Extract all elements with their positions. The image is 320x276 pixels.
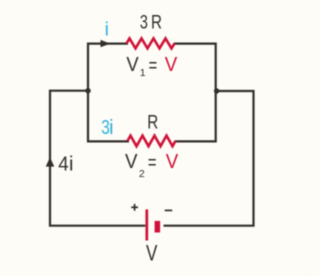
svg-text:R: R [147,111,158,133]
svg-text:V: V [166,151,179,173]
svg-text:i: i [69,154,73,176]
svg-text:V: V [165,54,178,76]
svg-text:i: i [105,19,109,41]
svg-text:R: R [151,12,162,34]
svg-text:V: V [125,151,138,173]
svg-text:=: = [148,152,157,174]
svg-text:1: 1 [140,67,146,79]
svg-text:V: V [126,54,139,76]
svg-text:2: 2 [139,168,145,180]
svg-text:3: 3 [140,12,148,34]
svg-text:V: V [146,241,158,266]
svg-text:i: i [109,116,114,139]
svg-text:=: = [149,55,158,77]
svg-text:4: 4 [58,154,68,176]
